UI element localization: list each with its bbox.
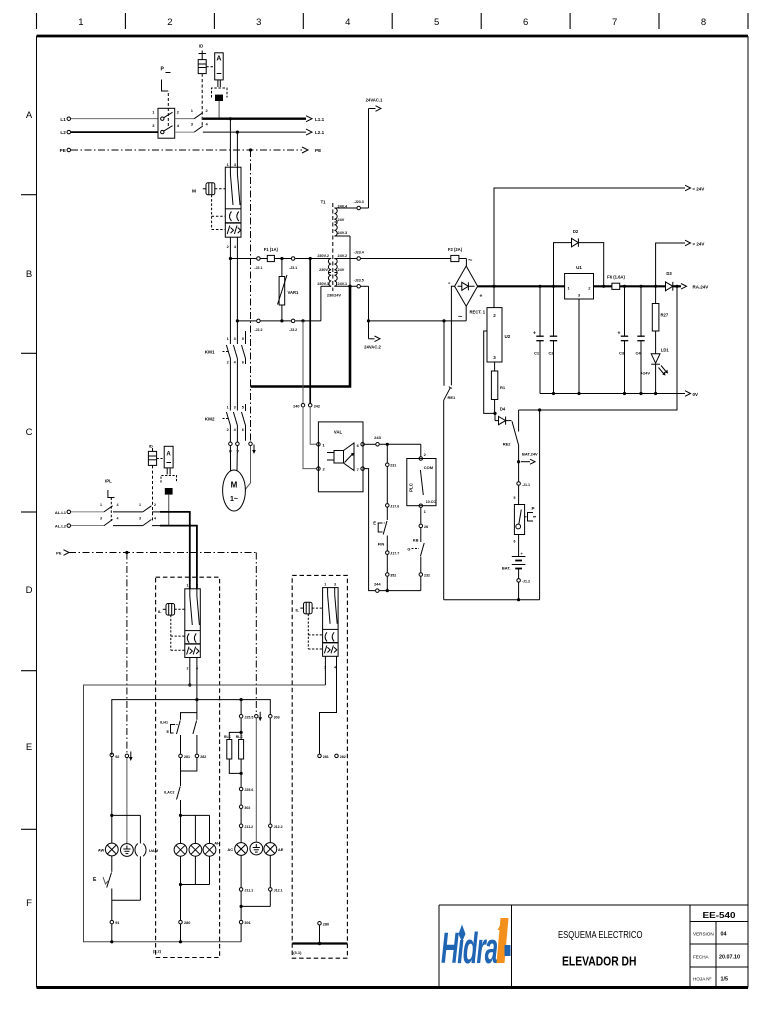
input terminal PE [67,148,71,152]
terminal J17.6 [386,504,390,508]
svg-text:ILH1: ILH1 [160,721,168,725]
svg-text:24V: 24V [338,268,345,272]
svg-text:-J3.1: -J3.1 [289,266,297,270]
box 3.2 interior: feed jog [181,713,197,720]
arrow 24VAC.1 [376,106,382,112]
svg-text:PE: PE [315,148,321,153]
svg-text:1~: 1~ [230,496,238,503]
lamp H2 [189,815,202,884]
svg-text:J17.7: J17.7 [390,552,399,556]
terminal J25.5 [239,714,243,718]
svg-text:281: 281 [323,755,329,759]
transformer T1 [328,203,337,291]
wire 539 drop [539,410,541,600]
svg-text:3: 3 [234,163,236,167]
terminal 281b [318,754,322,758]
ruler letters [26,110,33,909]
PLC box [407,457,436,508]
fuse ID2 [148,448,156,521]
svg-text:-J23.4: -J23.4 [354,251,364,255]
title block text [558,911,740,983]
svg-text:KB: KB [413,538,419,543]
terminal J11.2 [239,824,243,828]
wire RA to battery branch [519,286,677,410]
wire IL2 left out [324,656,326,685]
battery BAT [512,557,526,579]
svg-text:24VAC.2: 24VAC.2 [364,345,381,350]
terminal 280b [318,922,322,926]
svg-text:P: P [532,506,535,511]
socket UAM [135,815,146,900]
svg-text:6: 6 [242,361,244,365]
luminaire earth symbol [121,844,134,857]
Hidral logo [441,918,511,973]
svg-text:J25.5: J25.5 [244,715,253,719]
svg-text:A: A [166,452,171,458]
svg-text:5: 5 [514,496,516,500]
capacitor C3 [621,286,628,393]
svg-text:ID: ID [149,444,153,449]
lamp H1 [174,815,187,884]
IL1 handle [163,604,185,651]
junction dot L1 breaker drop [229,117,232,120]
junction dot D4 anode [493,412,496,415]
svg-text:301: 301 [244,921,250,925]
svg-text:R27: R27 [661,313,669,318]
left ruler ticks [21,195,37,830]
svg-text:1: 1 [78,17,83,28]
svg-text:HOJA Nº: HOJA Nº [693,977,712,982]
svg-text:+: + [480,294,483,300]
wire 242 to horn pin1 [310,407,316,444]
svg-text:G: G [407,547,410,552]
wire 24VAC.2 drop [368,286,370,339]
svg-text:T1: T1 [321,200,327,205]
terminal 301 [239,920,243,924]
lamp AW [105,815,118,871]
lamp AC [235,843,248,888]
AL thick feeds [160,512,190,589]
svg-text:2: 2 [227,428,229,432]
relay contact RE2 [512,410,519,446]
wire pin6 to 243 [365,443,376,445]
svg-text:J11.2: J11.2 [244,825,253,829]
terminal 240 [301,403,305,407]
meter lead to L1 [218,101,220,119]
junction dot battery rail [517,598,520,601]
svg-text:-J2.2: -J2.2 [254,328,262,332]
luminaire earth symbol 2 [250,842,263,855]
svg-text:91: 91 [115,921,119,925]
terminal 28 [419,524,423,528]
svg-text:M: M [192,189,196,195]
svg-text:4: 4 [117,517,119,521]
svg-text:230V.2: 230V.2 [317,254,329,258]
breaker handle M [203,183,226,230]
switch ILAC2 [177,787,181,816]
wire 24V.4 tap [334,207,356,209]
svg-text:PLC: PLC [409,482,414,492]
svg-text:L2: L2 [60,130,66,135]
svg-text:C3: C3 [619,351,625,356]
svg-text:1/5: 1/5 [721,977,729,983]
battery rail [444,599,540,601]
junction dot FIN column top [386,443,389,446]
svg-text:BAT.: BAT. [502,566,511,571]
svg-text:2: 2 [187,667,189,671]
svg-text:-J1.1: -J1.1 [522,483,530,487]
svg-text:C: C [26,427,33,438]
switch E [103,873,112,901]
svg-text:0V: 0V [693,392,699,397]
svg-text:D4: D4 [500,407,506,412]
wire 240 to horn pin2 [303,407,316,468]
svg-text:ESQUEMA ELECTRICO: ESQUEMA ELECTRICO [558,930,643,941]
svg-text:M: M [231,481,238,490]
svg-text:~: ~ [468,256,473,265]
terminal J25.6 [239,787,243,791]
svg-text:20.07.10: 20.07.10 [719,955,740,961]
input terminal L1 [67,117,71,121]
svg-text:D: D [26,585,33,596]
bridge rectifier RECT.1 [455,266,478,306]
horn unit VAL box [317,422,365,492]
svg-text:2: 2 [154,503,156,507]
main switch handle IP [162,73,171,92]
key switch KB [412,543,425,572]
terminal J12.2 [269,824,273,828]
svg-text:U1: U1 [576,265,582,270]
IPL handle [108,490,115,521]
svg-text:24V: 24V [338,218,345,222]
terminal J2.1 [257,257,261,261]
svg-text:RECT. 1: RECT. 1 [470,310,486,315]
240 drop [302,321,304,403]
svg-text:L1.1: L1.1 [315,117,325,122]
svg-text:E: E [26,742,32,753]
arrow ~24V [685,185,691,191]
svg-text:(3.1): (3.1) [293,950,302,955]
dashed enclosure box 3.2 [156,577,220,957]
svg-text:U2: U2 [505,334,511,339]
motor breaker QM box [225,167,241,321]
main switch IG box [158,93,175,138]
svg-text:302: 302 [244,806,250,810]
junction dot 321 line left end [236,319,239,322]
suppressor RLC pair [227,732,244,775]
svg-text:1: 1 [324,582,326,586]
svg-text:240: 240 [293,404,299,408]
wire PLC down [420,508,422,524]
terminal 281 [179,754,183,758]
diode D2 bypass loop [554,238,606,288]
input AL.L2 [67,524,71,528]
motor terminal V [236,442,240,446]
lamp return rail L [112,899,141,901]
fuse F6 (1.6A) [612,283,620,289]
svg-text:AW: AW [98,848,105,853]
wire L1 between switches [175,118,195,120]
dashed enclosure box 3.1 [292,575,347,958]
svg-text:6: 6 [514,540,516,544]
junction dot L2 breaker drop [236,131,239,134]
terminal J23.4 [357,257,361,261]
svg-text:4: 4 [117,503,119,507]
RCD switch pole 1 [194,113,203,119]
svg-text:+24V: +24V [641,371,651,376]
svg-text:UAM: UAM [149,848,159,853]
ruler numbers [78,17,706,28]
terminal J2.2 [257,319,261,323]
svg-text:1: 1 [227,163,229,167]
wire J2.2 line [237,320,256,322]
arrow =24V [685,240,691,246]
svg-text:1: 1 [139,503,141,507]
svg-text:IL: IL [295,608,299,613]
svg-text:231: 231 [390,464,396,468]
svg-text:92: 92 [115,755,119,759]
RCD switch2 pole2 [143,520,152,526]
svg-text:3: 3 [139,517,141,521]
svg-text:C4: C4 [635,351,641,356]
resistor R1 [491,371,497,413]
relay contact RE1 [444,321,452,600]
svg-text:5: 5 [242,337,244,341]
svg-text:BAT.24V: BAT.24V [522,452,538,457]
hour meter A [212,53,228,98]
svg-text:J17.6: J17.6 [390,504,399,508]
terminal J17.7 [386,551,390,555]
thick rail box 3.1 [292,942,347,944]
terminal 231 [386,463,390,467]
svg-text:L2.1: L2.1 [315,130,325,135]
terminal J12.1 [269,888,273,892]
junction dot VAR1 bottom [280,319,283,322]
input AL.L1 [67,510,71,514]
terminal 282 [195,754,199,758]
RCD switch2 pole1 [143,506,152,512]
limit switch FIN [378,521,387,551]
hour meter A2 [161,446,177,525]
svg-text:4: 4 [154,517,156,521]
FIN column wire [386,444,388,462]
battery branch [518,446,520,481]
svg-text:243: 243 [374,435,381,440]
wire 230V.1 return [320,286,322,321]
svg-text:V: V [237,450,240,454]
svg-text:AL.L1: AL.L1 [55,510,67,515]
current transformer blob [215,95,223,101]
svg-text:IPL: IPL [105,479,112,484]
svg-text:280: 280 [184,921,190,925]
motor M1 [223,470,246,511]
0V rail [540,393,685,395]
junction dot thick bus [348,285,351,288]
svg-text:10.CO: 10.CO [426,500,437,504]
svg-text:KM2: KM2 [205,417,215,422]
lamp AE [264,843,277,888]
svg-text:4: 4 [334,665,336,669]
title block [439,905,748,988]
svg-text:7: 7 [612,17,617,28]
terminal 302 [239,805,243,809]
wire IL1 right out [196,658,198,713]
arrow L1.1 [306,116,312,122]
svg-text:A: A [216,56,221,63]
svg-text:4: 4 [345,17,350,28]
svg-text:VAR1: VAR1 [288,290,300,295]
wire 24V.1 tap [334,285,356,287]
svg-text:FECHA: FECHA [693,955,710,960]
arrow RA.24V [681,284,687,290]
junction dot BAT.24V [517,460,520,463]
svg-text:1: 1 [100,503,102,507]
svg-text:352: 352 [390,573,396,577]
svg-text:RLC: RLC [236,735,244,739]
svg-text:24V.3: 24V.3 [338,231,348,235]
svg-text:F: F [26,898,32,909]
svg-text:24V.4: 24V.4 [338,205,348,209]
svg-text:RE1: RE1 [448,395,457,400]
svg-text:24V.2: 24V.2 [338,254,348,258]
wire L2 between switches [175,131,195,133]
svg-text:303: 303 [274,715,280,719]
RCD trip dashed link [201,74,203,126]
junction dot 539 drop [538,408,541,411]
svg-text:8: 8 [701,17,706,28]
terminal J11.1 [239,888,243,892]
terminal J23.3 [357,206,361,210]
dashed link ID2 meter [157,458,165,460]
wire pin7 down [365,469,376,591]
svg-text:6: 6 [523,17,528,28]
svg-text:281: 281 [184,755,190,759]
thick 242 drop [309,259,311,404]
svg-text:AE: AE [278,847,284,852]
aux contact [193,721,197,754]
svg-text:-J2.1: -J2.1 [254,266,262,270]
svg-text:PE: PE [60,148,66,153]
contactor KM1 [223,331,246,411]
diode D3 [666,282,682,291]
svg-text:A: A [26,110,33,121]
svg-text:242: 242 [314,404,320,408]
svg-text:C2: C2 [548,351,554,356]
svg-text:F6 (1.6A): F6 (1.6A) [607,275,625,280]
earth arrow at motor PE [252,445,256,455]
motor terminal U [229,442,233,446]
svg-text:~: ~ [458,312,463,321]
svg-text:-J1.2: -J1.2 [522,580,530,584]
svg-text:J12.1: J12.1 [274,889,283,893]
fuse F1 (1A) [267,255,274,261]
middle column drop [240,700,242,715]
terminal 243 [376,443,380,447]
svg-text:E: E [373,521,376,526]
terminal 352 [386,573,390,577]
junction dot FIN column bottom [386,589,389,592]
junction dots C1 C2 [538,285,541,288]
junction dot PE vertical [249,148,252,151]
svg-text:230V: 230V [319,268,328,272]
svg-text:IL: IL [158,609,162,614]
svg-text:J25.6: J25.6 [244,788,253,792]
input terminal L2 [67,130,71,134]
svg-text:04: 04 [721,932,727,938]
svg-text:FIN: FIN [378,542,385,547]
lamp feed rail B [112,700,270,755]
resistor R27 [652,286,659,354]
svg-text:282: 282 [340,755,346,759]
switch IPL pole2 [104,520,113,526]
svg-text:VERSION: VERSION [693,932,714,937]
svg-text:F2 (2A): F2 (2A) [448,247,463,252]
svg-text:COM: COM [424,465,434,470]
PE2 drop B [255,553,257,715]
wire to F2 [361,258,451,260]
svg-text:AC: AC [227,847,233,852]
regulator U1 [565,274,594,394]
junction dot RA [675,285,678,288]
svg-text:D3: D3 [666,271,672,276]
top ruler ticks [37,13,749,29]
wire phase drops to breaker [229,119,231,168]
svg-text:2: 2 [167,17,172,28]
PE dash-dot vertical [250,150,252,442]
svg-text:3: 3 [334,582,336,586]
junction dot 242 drop [309,257,312,260]
breaker IL2 [323,588,339,657]
arrow PE [302,147,308,153]
svg-text:PE: PE [56,551,62,556]
PE2 input arrow [64,550,257,556]
varistor VAR1 [278,259,288,321]
junction dot PE2 [125,551,128,554]
svg-text:230/24V: 230/24V [327,294,342,298]
wire 24V.2 tap to J23.4 [334,258,356,260]
svg-text:RLC: RLC [224,735,232,739]
svg-text:6: 6 [242,428,244,432]
wire 230V.2 line (breaker to transformer) [230,258,256,260]
return link rail [241,905,270,907]
door contact ILH1 [171,721,181,754]
junction dot U2 feed [492,285,495,288]
svg-text:VAL: VAL [334,430,343,435]
terminal J23.5 [357,285,361,289]
svg-text:5: 5 [434,17,439,28]
svg-text:230V.1: 230V.1 [317,282,329,286]
wire =24V out [656,243,685,286]
junction dot 230V line [229,257,232,260]
wire AC to bridge bottom [369,320,467,322]
svg-text:232: 232 [424,573,430,577]
wire 24V.3 tap [334,235,350,237]
svg-text:244: 244 [374,581,381,586]
svg-text:+: + [618,331,621,337]
junction dot VAR1 top [280,257,283,260]
LED LD1 [651,354,668,394]
svg-text:2: 2 [324,665,326,669]
switch IPL pole1 [104,506,113,512]
svg-text:2: 2 [227,245,229,249]
terminal J1.2 [517,579,521,583]
terminal 242 [308,403,312,407]
wire 24VAC.1 riser [368,109,370,209]
svg-text:4: 4 [196,667,198,671]
svg-text:-J23.5: -J23.5 [354,278,364,282]
wire to PLC [420,444,422,456]
svg-text:24VAC.1: 24VAC.1 [366,98,383,103]
